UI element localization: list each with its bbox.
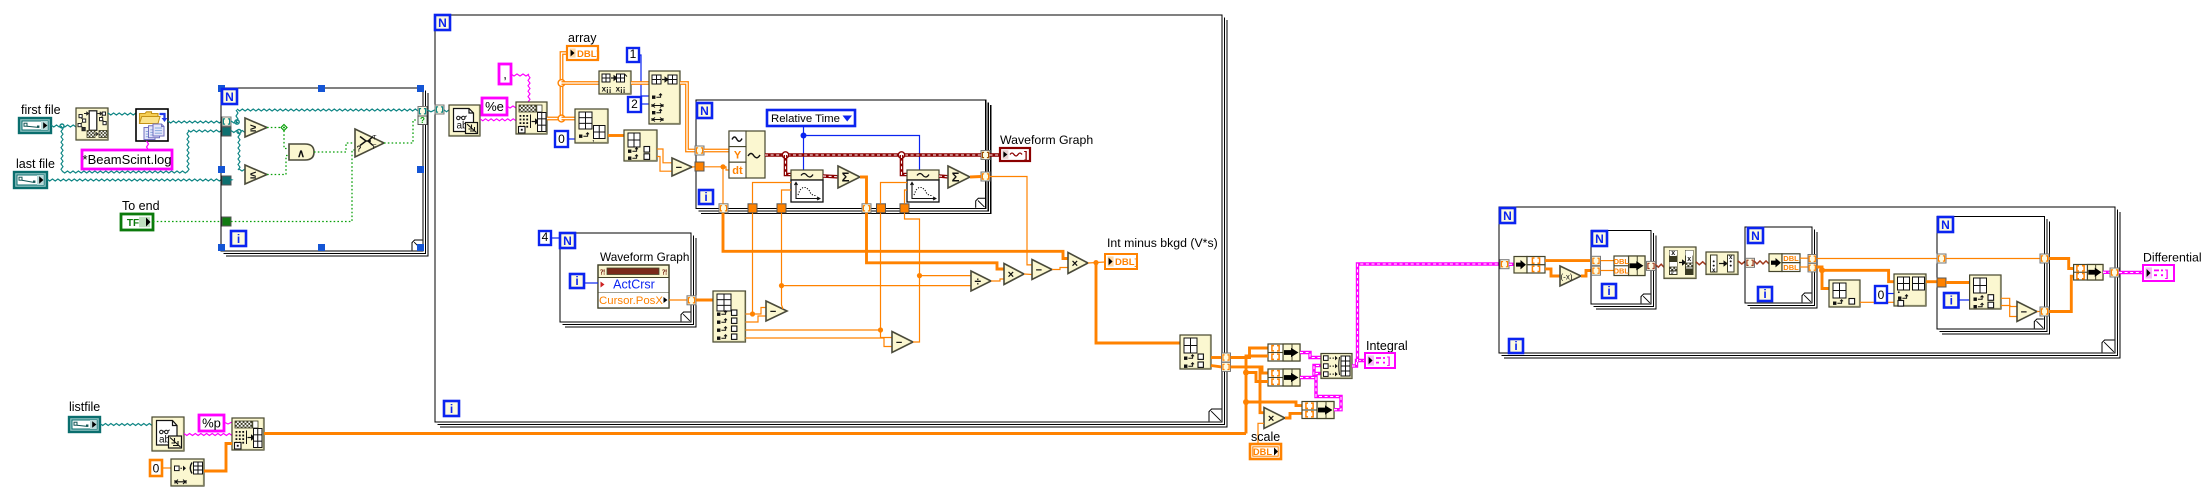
svg-text:DBL: DBL <box>1253 447 1272 457</box>
wire scalar I to multiply J <box>1052 268 1068 270</box>
numeric constant 0 (R2 area) <box>1875 286 1887 303</box>
wire path list-folder to loop tunnel <box>168 121 222 123</box>
svg-text:%p: %p <box>202 416 221 431</box>
tunnel y out (R2) <box>1808 263 1817 272</box>
wire scalar bottom tunnel to subset1 start <box>753 183 792 204</box>
svg-text:∧: ∧ <box>297 148 305 160</box>
subtract node G <box>892 332 913 353</box>
wire string %e to parse node <box>507 106 516 108</box>
svg-text:last file: last file <box>16 157 55 171</box>
svg-text:≥: ≥ <box>250 123 256 135</box>
tunnel dt array out (bottom) <box>719 204 728 213</box>
svg-text:N: N <box>438 16 447 30</box>
multiply node H <box>1004 264 1024 285</box>
wire scalar divide to multiply H <box>991 279 1004 281</box>
wire array x to inner loop R1 <box>1545 259 1590 262</box>
svg-text:DBL: DBL <box>1783 254 1799 263</box>
svg-text:TF: TF <box>127 218 139 229</box>
wire path to read-file icon <box>444 110 449 112</box>
svg-text:i: i <box>237 232 240 246</box>
for loop 2 i box <box>444 401 459 416</box>
property loop: for loop 4 frame <box>560 233 691 322</box>
svg-text:x¡¡: x¡¡ <box>616 85 626 94</box>
wire scalar tunnels to bundle W1 <box>1601 260 1615 262</box>
spreadsheet string to array node A <box>516 102 547 134</box>
tunnel cluster in <box>1500 260 1509 269</box>
wire cluster bundle4 to tunnel <box>2103 271 2110 274</box>
svg-text:Y: Y <box>734 150 742 162</box>
svg-text:Σ: Σ <box>842 170 850 185</box>
svg-text:1: 1 <box>630 47 637 61</box>
svg-text:i: i <box>1514 339 1517 353</box>
svg-text:i: i <box>1763 287 1766 301</box>
wire boolean le to and <box>267 156 289 175</box>
path control listfile <box>69 417 100 432</box>
wire path to greater-equal <box>236 122 238 123</box>
sort 1D array node <box>1664 247 1696 279</box>
tunnel cluster out (outer loop) <box>2110 268 2119 277</box>
array indicator DBL <box>567 46 598 60</box>
path control last file <box>14 172 47 188</box>
svg-text:N: N <box>1751 229 1760 243</box>
wire cluster-array to sort node <box>1656 264 1665 267</box>
svg-text:scale: scale <box>1251 430 1280 444</box>
svg-text:Σ: Σ <box>952 170 960 185</box>
subtract node I <box>1032 260 1052 280</box>
bundle node 1 <box>1268 344 1300 361</box>
wire scalar Z2 to tunnel <box>2037 311 2041 313</box>
wire scalar F1 junction <box>746 313 753 315</box>
for loop R3 frame <box>1937 217 2044 329</box>
index array node K <box>1180 335 1211 369</box>
unbundle node U1 <box>1514 257 1527 274</box>
greater or equal node <box>245 118 267 137</box>
wire waveform drop to subset 1 <box>786 155 792 175</box>
wire array negate to inner loop R1 <box>1581 271 1591 277</box>
tunnel dt in <box>695 162 704 171</box>
build array node L <box>1321 354 1352 379</box>
wire cluster to Differential <box>2119 271 2143 274</box>
select node <box>355 129 384 157</box>
tunnel last-file in <box>222 176 231 185</box>
wire array R3-x to bundle4 <box>2049 259 2074 269</box>
wire scalar x across R3 <box>1946 258 2040 260</box>
for loop 5 frame (outer right) <box>1499 207 2115 353</box>
svg-text:×: × <box>1008 269 1014 281</box>
wire scalar sum2 tunnel to minus3 <box>990 177 1033 265</box>
tunnel t0-b in (bottom) <box>877 204 886 213</box>
wire 2D array rail up to indicator <box>562 53 568 119</box>
tunnel 2D in <box>695 146 704 155</box>
wire 2D array to build waveform Y <box>704 149 729 153</box>
svg-text:DBL]: DBL] <box>577 49 600 60</box>
control scale DBL <box>1250 444 1281 459</box>
wire array sum1 down to tunnel <box>860 177 867 204</box>
svg-text:x: x <box>1687 256 1691 263</box>
wire dt-array out bottom-left <box>723 213 1068 259</box>
tunnel sum1 out (bottom) <box>862 204 871 213</box>
svg-text:]: ] <box>1024 151 1027 162</box>
reverse 1D array node <box>1706 252 1738 275</box>
bundle node 2 <box>1268 369 1300 386</box>
wire 1D array B to C <box>608 134 624 137</box>
numeric constant 0 (index) <box>555 131 568 147</box>
wire waveform main <box>765 153 981 157</box>
for loop 1 frame <box>221 88 423 251</box>
svg-text:≤: ≤ <box>250 170 256 182</box>
svg-text:⁈: ⁈ <box>662 269 667 277</box>
wire int 1 to subset <box>639 55 649 96</box>
svg-text:i: i <box>1607 284 1610 298</box>
wire scalar H to minus I <box>1024 273 1032 276</box>
for loop 3 N box <box>697 103 712 118</box>
svg-text:−: − <box>1036 264 1042 276</box>
svg-text:0: 0 <box>1878 288 1885 302</box>
wire 2D array to delete-from-array <box>562 81 600 85</box>
wire arrays K to big loop tunnels <box>1211 356 1222 359</box>
svg-text:i: i <box>1950 294 1953 308</box>
svg-text:x¡¡: x¡¡ <box>602 85 612 94</box>
svg-text:ActCrsr: ActCrsr <box>613 278 655 292</box>
tunnel idx in (R3) <box>1937 278 1946 287</box>
svg-text:Cursor.PosX: Cursor.PosX <box>599 295 663 307</box>
wire listfile branch to bundle3 <box>1246 402 1302 406</box>
wire array sum2 to right tunnel <box>970 175 981 178</box>
numeric constant 4 <box>539 231 551 245</box>
wire array tunnel-y branch down to multiply M <box>1260 368 1264 413</box>
build waveform node <box>729 131 765 178</box>
read text file icon <box>449 105 480 136</box>
waveform subset node 1 <box>791 170 823 180</box>
wire listfile branch to bundle2 <box>1246 373 1268 382</box>
wire 2D array listfile long rail <box>264 432 1246 435</box>
enum constant Relative Time <box>767 110 855 126</box>
subtract node Z2 <box>2017 302 2037 322</box>
wire scalar bottom tunnel to subset2 dur <box>905 190 908 204</box>
wire int 0 to minmax <box>1887 293 1894 295</box>
wire enum to subset nodes <box>803 126 805 170</box>
wire waveform subset2 to sum2 <box>939 174 948 178</box>
tunnel x in (R3) <box>1937 254 1946 263</box>
bundle node 3 <box>1302 402 1334 419</box>
svg-text:T: T <box>373 135 377 142</box>
wire array R3-dx to bundle4 <box>2049 276 2074 311</box>
svg-text:0: 0 <box>153 462 160 476</box>
for loop 5 i box <box>1509 339 1523 353</box>
svg-text:N: N <box>1941 218 1950 232</box>
svg-text:array: array <box>568 31 597 45</box>
numeric constant 0 (orange) <box>150 460 162 476</box>
path control first file <box>19 118 51 133</box>
multiply node J <box>1068 253 1088 274</box>
indicator Differential <box>2143 265 2174 281</box>
iteration terminal i (R3) <box>1944 293 1959 308</box>
wire cluster-array sort to reverse <box>1696 262 1706 265</box>
wire scalar dt into build waveform <box>704 167 729 170</box>
spreadsheet string to array node (listfile) <box>232 418 264 450</box>
svg-text:,: , <box>503 67 507 82</box>
for loop 2 N box <box>435 15 450 30</box>
wire int 2 to subset <box>641 103 649 105</box>
wire string read to parse node <box>480 119 516 121</box>
sum node 1 <box>838 166 860 188</box>
svg-text:9°: 9° <box>1670 270 1676 276</box>
divide node <box>971 271 991 291</box>
iteration terminal i (property loop) <box>570 274 584 288</box>
tunnel cluster in (R2) <box>1746 258 1755 267</box>
wire scalar bottom tunnel to subset1 dur <box>782 190 792 204</box>
wire scalar J to indicator <box>1088 262 1105 263</box>
waveform subset node 2 <box>907 170 939 180</box>
wire cluster junction up to right loop <box>1358 264 1500 362</box>
for loop 4 N box <box>560 233 575 248</box>
wire scalar F2 to minus E <box>746 316 767 322</box>
wire scalar E output up rail <box>782 213 784 309</box>
wire boolean To-end to loop tunnel <box>153 221 222 223</box>
wire array y to index Y1 and minmax <box>1817 267 1830 289</box>
wire scalar E to divide bottom <box>782 285 972 287</box>
wire int i to index Z1 <box>1959 299 1970 301</box>
for loop 3 frame (waveform) <box>696 100 986 208</box>
tunnel x out (R3) <box>2040 254 2049 263</box>
wire scalar F1 to minus E <box>753 308 767 315</box>
tunnel waveform out <box>981 151 990 160</box>
wire 1D array J result down to split node K <box>1096 263 1180 343</box>
string constant *BeamScint.log <box>147 141 149 150</box>
wire scalar Y1 to minmax <box>1860 301 1875 303</box>
svg-text:To end: To end <box>122 199 160 213</box>
svg-text:Waveform Graph: Waveform Graph <box>600 250 689 264</box>
wire 1D array PosX to index node F <box>696 299 713 302</box>
svg-text:DBL: DBL <box>1614 257 1630 266</box>
wire scalar F3 long to minus G <box>746 329 881 331</box>
svg-text:i: i <box>450 402 453 416</box>
wire scalar F1 up into loop tunnel <box>752 213 754 314</box>
svg-text:N: N <box>225 90 234 104</box>
wire cluster bundle1 to build array <box>1300 353 1321 358</box>
svg-text:−: − <box>676 162 682 174</box>
subtract node D <box>672 158 692 176</box>
wire boolean select to conditional tunnel <box>384 120 418 143</box>
svg-text:%e: %e <box>485 99 504 114</box>
tunnel path-array in <box>222 117 231 126</box>
tunnel cluster out (brown) <box>1647 261 1656 270</box>
selection handles <box>218 85 225 92</box>
match pattern icon <box>76 108 108 140</box>
svg-text:(-x): (-x) <box>1561 273 1573 282</box>
index array node B <box>575 109 608 143</box>
wire waveform subset1 to sum1 <box>823 174 838 178</box>
svg-text:?: ? <box>357 145 362 154</box>
for loop R1 frame <box>1591 231 1651 305</box>
string constant %p <box>199 415 224 431</box>
svg-text:Int minus bkgd (V*s): Int minus bkgd (V*s) <box>1107 236 1218 250</box>
svg-text:listfile: listfile <box>69 400 100 414</box>
wire path last-file to loop <box>47 179 222 181</box>
tunnel PosX out <box>687 296 696 305</box>
wire path while-loop to big loop <box>427 110 435 112</box>
wire scalar Z1 rows to subtract Z2 <box>2001 306 2017 307</box>
wire scalar G output up rail <box>905 213 920 342</box>
svg-text:2: 2 <box>631 97 638 111</box>
svg-text:F: F <box>373 144 377 151</box>
for loop 5 N box <box>1500 208 1515 223</box>
wire array tunnel-x to bundle1 <box>1231 348 1269 358</box>
wire scalar U2 rows to tunnels <box>1800 257 1809 259</box>
wire 2D array parse out to rail <box>547 117 562 121</box>
svg-text:Differential: Differential <box>2143 251 2202 265</box>
for loop 1 N box <box>222 89 237 104</box>
for loop R2 N box <box>1748 228 1763 243</box>
subtract node E <box>766 301 787 321</box>
svg-text:i: i <box>704 190 707 204</box>
wire 2D array subset to wave loop <box>680 83 695 151</box>
tunnel dur-b in (bottom) <box>900 204 909 213</box>
numeric constant 2 <box>628 97 641 112</box>
svg-text:]: ] <box>2165 269 2168 280</box>
and gate <box>289 144 314 160</box>
tunnel dx out (R3) <box>2040 307 2049 316</box>
tunnel intx out <box>1222 353 1231 362</box>
string constant comma <box>499 64 511 84</box>
property node Waveform Graph <box>598 265 669 308</box>
svg-text:]: ] <box>1387 356 1390 367</box>
bundle node 4 <box>2074 265 2103 281</box>
svg-text:i: i <box>575 274 578 288</box>
string constant %e <box>482 98 507 115</box>
tunnel x out (R2) <box>1808 255 1817 264</box>
for loop R1 N box <box>1592 231 1607 246</box>
svg-text:?: ? <box>420 116 425 125</box>
svg-text:Waveform Graph: Waveform Graph <box>1000 133 1093 147</box>
wire listfile rail up <box>1246 356 1268 434</box>
svg-text:÷: ÷ <box>975 274 982 288</box>
wire scalar G to divide top <box>920 275 972 277</box>
for loop 2 frame (main) <box>435 15 1222 422</box>
svg-text:*BeamScint.log: *BeamScint.log <box>83 152 172 167</box>
negate node <box>1560 266 1581 286</box>
wire array multiply M to bundle3 <box>1285 413 1302 418</box>
for loop 1 i box <box>231 231 246 246</box>
tunnel first-file in <box>222 127 231 136</box>
list folder icon <box>136 109 168 141</box>
bundle node W1 (DBL DBL) <box>1614 256 1645 276</box>
wire array init to parse node <box>204 444 232 472</box>
svg-text:0: 0 <box>558 132 565 146</box>
wire array PosX to tunnel <box>669 299 687 301</box>
unbundle node U2 (DBL DBL) <box>1769 254 1782 272</box>
svg-text:⁈: ⁈ <box>600 269 605 277</box>
wire boolean and to select <box>314 143 355 152</box>
conditional indexing tunnel <box>418 107 427 117</box>
wire string %p to parse node <box>224 422 232 424</box>
wire cluster into unbundle <box>1509 263 1514 266</box>
wire scalar dt down to bottom tunnel <box>722 167 724 204</box>
svg-text:−: − <box>770 306 776 318</box>
wire 2D array to index node B <box>562 117 576 121</box>
wire sum1-array out <box>867 213 1005 269</box>
wire cluster-array reverse to loop R2 <box>1738 261 1746 264</box>
wire path first-file branch down to loop tunnel <box>61 126 222 173</box>
tunnel dur-a in (bottom) <box>777 204 786 213</box>
svg-text:N: N <box>1595 232 1604 246</box>
wire int 0 to index node B <box>568 138 575 140</box>
wire path inside loop to output tunnel <box>231 121 237 123</box>
search array node Y3 <box>1894 274 1926 306</box>
wire scalar bottom tunnel to subset2 start <box>881 183 908 204</box>
tunnel sum2 out <box>981 172 990 181</box>
tunnel inty out <box>1222 362 1231 371</box>
read text file icon (listfile) <box>152 417 184 451</box>
svg-text:dt: dt <box>732 165 743 177</box>
index array node F (cursor positions) <box>713 291 746 342</box>
boolean control To end <box>121 214 153 230</box>
wire string read to parse node (listfile) <box>184 434 232 436</box>
wire cluster bundle3 to build array row3 <box>1316 374 1341 410</box>
svg-text:DBL]: DBL] <box>1115 257 1138 268</box>
svg-text:N: N <box>700 104 709 118</box>
indicator Integral <box>1365 353 1395 368</box>
svg-text:−: − <box>2021 306 2027 318</box>
for loop R2 i box <box>1758 287 1772 301</box>
svg-text:−: − <box>896 337 902 349</box>
wire 2D array delete to subset node <box>631 81 649 85</box>
svg-text:,: , <box>592 133 595 143</box>
svg-text:×: × <box>1268 413 1274 425</box>
multiply node M (scale) <box>1264 408 1285 429</box>
for loop R3 N box <box>1938 217 1953 232</box>
wire scalar minmax to loop R3 tunnel <box>1926 280 1937 283</box>
svg-text:DBL: DBL <box>1614 267 1630 276</box>
wire scalar 0 to initialize array <box>162 467 171 469</box>
wire path listfile to read icon <box>100 424 152 426</box>
svg-text:N: N <box>563 234 572 248</box>
svg-text:×: × <box>1072 258 1078 270</box>
sum node 2 <box>948 166 970 188</box>
for loop R2 frame <box>1745 227 1812 303</box>
svg-text:DBL: DBL <box>1783 263 1799 272</box>
wire array idx to index node Z1 <box>1946 281 1970 284</box>
index array node Y1 <box>1829 280 1860 307</box>
wire array tunnel-y to bundle2 <box>1231 367 1269 373</box>
wire array y to negate <box>1545 269 1560 276</box>
wire scalar x long to loop R3 <box>1817 258 1938 260</box>
svg-text:N: N <box>1503 209 1512 223</box>
numeric constant 1 <box>627 48 639 62</box>
svg-text:Relative Time: Relative Time <box>771 113 840 125</box>
indicator Int minus bkgd DBL <box>1105 254 1137 269</box>
wire path first-file to match icon <box>51 125 76 127</box>
tunnel x in <box>1592 256 1601 265</box>
wire boolean ge to and <box>267 127 284 129</box>
wire cluster bundle2 to build array <box>1300 366 1321 378</box>
for loop 3 i box <box>699 190 713 204</box>
svg-text:4: 4 <box>542 230 549 244</box>
wire scalar scale to multiply M <box>1258 423 1264 444</box>
tunnel y in <box>1592 266 1601 275</box>
wire cluster to unbundle U2 <box>1754 261 1769 264</box>
waveform graph indicator terminal <box>990 153 1001 157</box>
wire boolean To-end to select <box>231 150 355 222</box>
tunnel path in (big loop) <box>435 105 444 114</box>
index array node Z1 <box>1970 275 2001 309</box>
index array node C <box>624 130 657 161</box>
less or equal node <box>245 165 267 184</box>
array subset node <box>649 71 680 124</box>
wire scalar F3 up into loop tunnel <box>880 213 882 330</box>
delete from array node <box>599 71 631 94</box>
svg-text:Integral: Integral <box>1366 339 1408 353</box>
